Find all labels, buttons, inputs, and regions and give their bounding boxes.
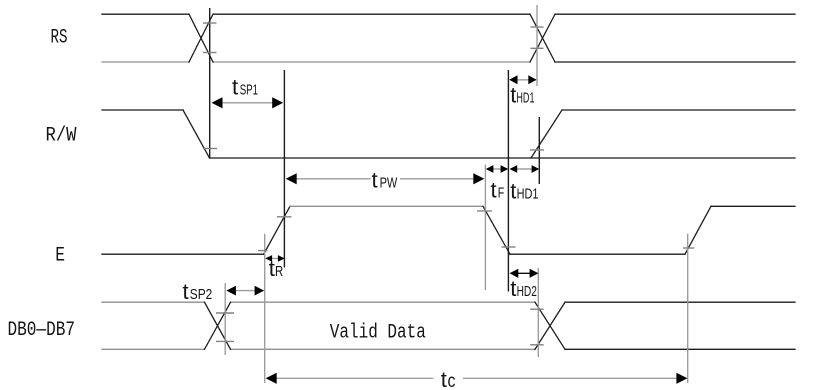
tick E fall top (477, 210, 492, 212)
wire R/W low rail (210, 157, 796, 159)
wire R/W rising edge (531, 110, 562, 158)
svg-text:t: t (269, 256, 275, 281)
tick E fall bottom (502, 246, 516, 248)
wire E rising edge 2 (685, 206, 711, 254)
dimension tHD1 mid arrow (511, 168, 538, 170)
wire R/W high rail left (102, 109, 183, 111)
svg-text:SP2: SP2 (190, 286, 213, 303)
reference line tc right x=687.7 (687, 234, 689, 383)
reference line RS hold x=537 top (536, 5, 538, 86)
wire E high rail pulse (gray) (290, 205, 483, 207)
svg-text:HD2: HD2 (517, 283, 537, 300)
tick RS crossover2 lower (531, 47, 544, 49)
node DB crossover 1 (205, 302, 231, 349)
wire R/W falling edge (183, 110, 210, 158)
svg-text:t: t (232, 75, 238, 100)
reference line E fall end x=508.4 (507, 70, 509, 292)
dimension tHD2 arrow (511, 272, 538, 274)
svg-text:SP1: SP1 (240, 82, 258, 99)
tick R/W falling edge (203, 148, 217, 150)
wire E high rail right (711, 205, 795, 207)
node DB crossover 2 (535, 302, 565, 349)
svg-text:t: t (491, 178, 497, 203)
reference line DB setup x=225.2 (224, 283, 226, 355)
svg-text:R/W: R/W (46, 125, 77, 148)
tick DB crossover1 upper (216, 312, 234, 314)
dimension tc arrow (267, 377, 434, 379)
tick R/W rising edge (530, 149, 544, 151)
node RS crossover 2 (530, 14, 555, 62)
svg-text:DB0—DB7: DB0—DB7 (8, 319, 76, 342)
svg-text:HD1: HD1 (516, 89, 534, 106)
dimension tPW arrow (287, 178, 371, 180)
tick E rise1 bottom (258, 250, 268, 252)
tick RS crossover2 upper (531, 26, 544, 28)
node RS crossover 1 (189, 14, 213, 62)
tick RS crossover1 upper (203, 22, 217, 24)
reference line at RS transition x=209.7 (209, 8, 211, 158)
svg-text:t: t (510, 276, 516, 301)
wire E low rail left (102, 253, 264, 255)
svg-text:t: t (510, 179, 516, 204)
svg-text:E: E (55, 245, 65, 268)
reference line tc left x=264.7 (264, 234, 266, 383)
reference line E fall start x=485.4 (484, 165, 486, 290)
dimension tF arrow (487, 168, 507, 170)
dimension tSP1 arrow (213, 102, 282, 104)
tick DB crossover2 upper (530, 308, 544, 310)
wire E rising edge 1 (264, 206, 290, 254)
svg-text:F: F (498, 185, 505, 202)
wire RS low rail black part (555, 61, 795, 63)
svg-text:t: t (372, 167, 378, 192)
dimension tSP2 arrow (227, 290, 263, 292)
wire E falling edge (483, 206, 510, 254)
svg-text:t: t (441, 367, 447, 390)
wire DB0-DB7 low rail black part (565, 348, 795, 350)
svg-text:c: c (448, 371, 456, 390)
wire DB0-DB7 low rail gray part (102, 348, 535, 350)
tick DB crossover1 lower (216, 340, 234, 342)
svg-text:Valid Data: Valid Data (330, 322, 426, 345)
wire DB0-DB7 high rail gray part (102, 301, 535, 303)
wire DB0-DB7 high rail black part (565, 301, 795, 303)
tick E rise1 top (277, 216, 292, 218)
dimension tHD1 top arrow (510, 79, 536, 81)
wire R/W high rail right (562, 109, 795, 111)
wire RS high rail (102, 13, 795, 15)
reference line DB hold x=538.3 bottom (537, 268, 539, 357)
reference line at E rise start x=284.4 (283, 70, 285, 268)
svg-text:RS: RS (51, 27, 68, 50)
wire E low rail mid (510, 253, 685, 255)
svg-text:PW: PW (380, 174, 398, 191)
reference line R/W hold x=539.3 mid (538, 117, 540, 184)
wire RS low rail gray part (102, 61, 530, 63)
svg-text:t: t (183, 279, 189, 304)
tick RS crossover1 lower (203, 52, 217, 54)
tick E rise2 (683, 247, 694, 249)
tick DB crossover2 lower (530, 344, 544, 346)
dimension tR arrow (266, 257, 283, 259)
svg-text:HD1: HD1 (517, 186, 539, 203)
svg-text:R: R (275, 263, 283, 280)
